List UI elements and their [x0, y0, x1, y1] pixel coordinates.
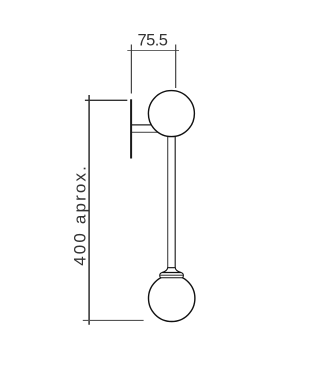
lamp holder flare mask [162, 268, 181, 273]
pole left line [167, 130, 169, 269]
extension line bottom (globe bottom) [83, 319, 144, 321]
collar mid line [160, 274, 183, 276]
bottom globe [149, 275, 195, 321]
dimension line 75.5 [127, 50, 179, 52]
dimension line 400 [88, 95, 90, 325]
arm tube top line [131, 124, 153, 126]
top globe [148, 91, 194, 137]
wall plate [130, 99, 132, 158]
svg-text:75.5: 75.5 [137, 32, 167, 50]
extension line right (pole) [175, 45, 177, 89]
extension line top (bracket top) [85, 99, 127, 101]
extension line left (wall face) [130, 45, 132, 94]
svg-text:400 aprox.: 400 aprox. [71, 164, 90, 266]
arm tube bottom line [131, 131, 160, 133]
pole right line [174, 130, 176, 269]
lamp holder collar [160, 273, 184, 278]
